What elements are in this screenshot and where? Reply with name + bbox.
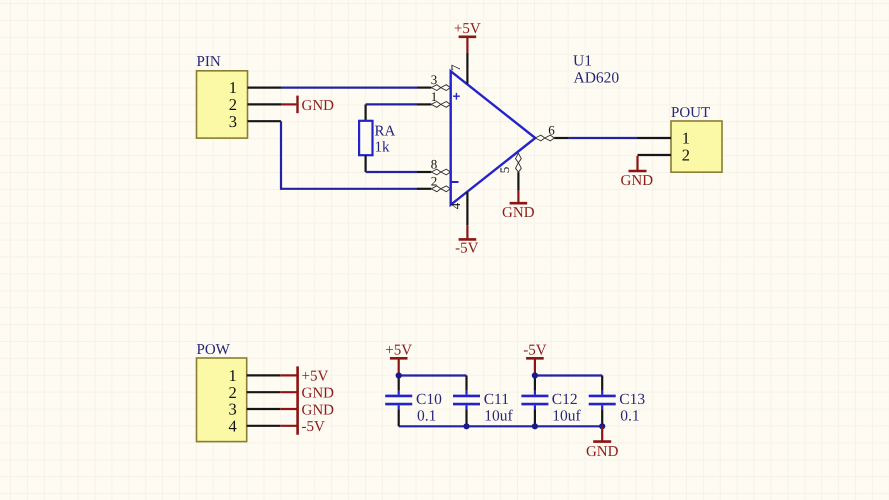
svg-text:C12: C12: [552, 391, 578, 408]
svg-text:3: 3: [431, 72, 438, 87]
svg-text:POW: POW: [197, 342, 231, 358]
svg-text:2: 2: [431, 173, 438, 188]
svg-text:-5V: -5V: [523, 343, 546, 359]
svg-text:POUT: POUT: [671, 105, 710, 121]
svg-text:8: 8: [431, 157, 438, 172]
svg-text:+5V: +5V: [385, 343, 412, 359]
svg-text:6: 6: [548, 122, 555, 137]
svg-text:GND: GND: [621, 173, 654, 189]
svg-text:AD620: AD620: [574, 69, 620, 86]
svg-text:PIN: PIN: [197, 54, 221, 70]
svg-text:GND: GND: [302, 98, 335, 114]
svg-text:+5V: +5V: [454, 21, 481, 37]
svg-text:GND: GND: [302, 402, 335, 418]
svg-text:10uf: 10uf: [552, 407, 581, 424]
svg-text:4: 4: [229, 416, 237, 435]
svg-text:-5V: -5V: [455, 241, 478, 257]
svg-text:1k: 1k: [375, 140, 391, 156]
svg-text:C11: C11: [484, 391, 509, 408]
svg-text:5: 5: [497, 167, 512, 174]
svg-text:U1: U1: [573, 53, 592, 70]
svg-text:4: 4: [448, 202, 463, 209]
svg-text:+5V: +5V: [302, 369, 329, 385]
svg-text:2: 2: [682, 146, 690, 165]
svg-text:C10: C10: [416, 391, 442, 408]
svg-text:3: 3: [229, 112, 237, 131]
svg-text:1: 1: [431, 89, 438, 104]
svg-text:GND: GND: [302, 386, 335, 402]
svg-text:0.1: 0.1: [417, 407, 436, 424]
svg-text:GND: GND: [586, 444, 619, 460]
svg-text:0.1: 0.1: [620, 407, 639, 424]
svg-text:C13: C13: [619, 391, 645, 408]
svg-text:10uf: 10uf: [484, 407, 513, 424]
svg-text:7: 7: [448, 64, 463, 71]
svg-text:GND: GND: [502, 205, 535, 221]
svg-text:RA: RA: [375, 123, 396, 139]
svg-text:-5V: -5V: [302, 419, 325, 435]
